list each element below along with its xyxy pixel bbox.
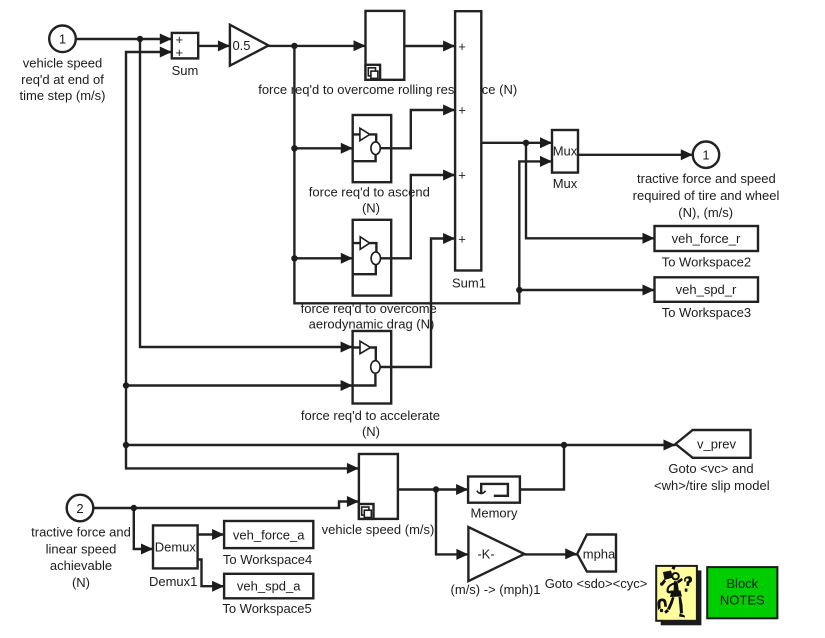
- svg-text:force req'd to accelerate: force req'd to accelerate: [301, 408, 440, 423]
- arrowhead Mux input2: [540, 156, 552, 167]
- svg-text:+: +: [458, 168, 466, 183]
- svg-text:1: 1: [702, 148, 709, 163]
- svg-text:1: 1: [59, 32, 66, 47]
- arrowhead veh_spd_r input: [643, 285, 655, 296]
- wire branch to veh_force_r: [526, 143, 655, 239]
- wire Sum1 output to Mux input1: [481, 142, 552, 144]
- svg-text:linear speed: linear speed: [46, 541, 117, 556]
- svg-text:+: +: [458, 232, 466, 247]
- wire Demux output1 to veh_force_a: [198, 533, 225, 535]
- svg-text:To Workspace3: To Workspace3: [662, 305, 751, 320]
- svg-text:Block: Block: [726, 576, 758, 591]
- arrowhead Demux input: [141, 544, 153, 555]
- svg-text:veh_spd_a: veh_spd_a: [237, 579, 301, 594]
- arrowhead Sum1 input4: [443, 233, 455, 244]
- sum block Sum1 (tall): [455, 11, 481, 270]
- wire ascend output to Sum1 input2: [392, 110, 455, 148]
- wire branch down to gain -K-: [436, 490, 468, 555]
- subsystem vehicle speed: [359, 454, 398, 519]
- junction at ascend branch: [291, 145, 297, 151]
- mux block Mux: [552, 130, 578, 173]
- svg-text:Memory: Memory: [471, 505, 518, 520]
- head outline: [671, 572, 680, 580]
- junction on inport1 wire: [137, 36, 143, 42]
- subsystem force req'd to overcome aerodynamic drag: [353, 220, 392, 296]
- sum block Sum: [172, 32, 198, 60]
- inport 2: [67, 495, 94, 522]
- left foot: [664, 609, 669, 614]
- arrowhead veh_force_a input: [212, 529, 224, 540]
- svg-text:Goto <vc> and: Goto <vc> and: [668, 461, 753, 476]
- wire accelerate output to Sum1 input4: [391, 239, 455, 368]
- gain 0.5: [230, 25, 269, 66]
- arrowhead drag input: [341, 253, 353, 264]
- svg-text:Demux: Demux: [155, 539, 197, 554]
- wire branch to Demux input: [134, 508, 153, 549]
- svg-text:tractive force and speed: tractive force and speed: [637, 171, 776, 186]
- junction at v_prev line branch: [123, 442, 129, 448]
- svg-text:Goto <sdo><cyc>: Goto <sdo><cyc>: [545, 576, 648, 591]
- arrowhead veh_spd_a input: [212, 581, 224, 592]
- bottom-left curl: [657, 598, 667, 610]
- wire branch down to accelerate input1: [140, 39, 353, 347]
- inport 1: [49, 26, 76, 53]
- arrowhead veh_force_r input: [643, 233, 655, 244]
- to workspace veh_force_a: [224, 521, 313, 548]
- wire Demux output2 to veh_spd_a: [198, 560, 225, 587]
- arrowhead Sum input1: [160, 34, 172, 45]
- subsystem force req'd to accelerate: [353, 331, 392, 404]
- svg-text:Sum1: Sum1: [452, 276, 486, 291]
- label of inport 1: [20, 56, 106, 103]
- label of outport 1: [633, 171, 780, 220]
- svg-text:veh_force_r: veh_force_r: [672, 231, 741, 246]
- svg-text:(m/s) -> (mph)1: (m/s) -> (mph)1: [451, 582, 541, 597]
- svg-text:vehicle speed (m/s): vehicle speed (m/s): [322, 522, 435, 537]
- junction on vehicle speed output: [433, 486, 439, 492]
- goto mpha: [577, 535, 616, 572]
- wire drag output to Sum1 input3: [392, 175, 455, 258]
- to workspace veh_spd_r: [655, 277, 759, 302]
- junction on inport2 wire: [131, 505, 137, 511]
- svg-text:+: +: [458, 39, 466, 54]
- right arm raised to head: [677, 578, 683, 584]
- wire feedback into Sum input2 and down to vehicle speed input1: [126, 52, 359, 468]
- wire gain -K- output to Goto mpha: [524, 553, 577, 555]
- arrowhead accelerate input1: [341, 342, 353, 353]
- svg-text:req'd at end of: req'd at end of: [21, 72, 104, 87]
- label of subsystem force req'd to ascend: [309, 184, 430, 215]
- svg-text:+: +: [176, 45, 184, 60]
- right foot: [679, 614, 685, 618]
- right leg: [679, 597, 684, 614]
- svg-text:achievable: achievable: [50, 558, 112, 573]
- svg-text:Sum: Sum: [172, 63, 199, 78]
- junction Memory output joins v_prev line: [561, 442, 567, 448]
- arrowhead gain -K- input: [456, 549, 468, 560]
- wire Memory output up to v_prev line: [520, 445, 564, 490]
- svg-text:Mux: Mux: [553, 176, 578, 191]
- svg-text:tractive force and: tractive force and: [31, 525, 131, 540]
- svg-text:v_prev: v_prev: [697, 437, 737, 452]
- wire branch to ascend input: [294, 147, 352, 149]
- memory block: [468, 477, 520, 503]
- goto v_prev: [676, 430, 751, 458]
- svg-text:2: 2: [76, 501, 83, 516]
- arrowhead Sum input2: [160, 47, 172, 58]
- svg-text:<wh>/tire slip model: <wh>/tire slip model: [654, 478, 770, 493]
- outport 1: [693, 142, 719, 168]
- svg-text:veh_force_a: veh_force_a: [233, 528, 305, 543]
- annotation block with jester figure (yellow): [656, 565, 701, 625]
- skirt: [670, 591, 682, 598]
- arrowhead accelerate input2: [341, 380, 353, 391]
- wire inport2 to vehicle speed input2: [94, 502, 359, 509]
- junction at accelerate input2 branch: [123, 382, 129, 388]
- junction on gain 0.5 output: [291, 43, 297, 49]
- svg-text:+: +: [458, 103, 466, 118]
- svg-text:time step (m/s): time step (m/s): [20, 88, 106, 103]
- svg-text:To Workspace4: To Workspace4: [223, 552, 312, 567]
- arrowhead Memory input: [456, 484, 468, 495]
- arrowhead Mux input1: [540, 137, 552, 148]
- svg-text:(N), (m/s): (N), (m/s): [678, 205, 733, 220]
- arrowhead Goto mpha input: [565, 548, 577, 559]
- svg-text:aerodynamic drag (N): aerodynamic drag (N): [309, 316, 435, 331]
- svg-text:mpha: mpha: [583, 546, 616, 561]
- arrowhead Goto v_prev input: [664, 440, 676, 451]
- arrowhead vehicle speed input2: [347, 496, 359, 507]
- subsystem force req'd to overcome rolling resistance: [366, 11, 405, 80]
- arrowhead outport1: [681, 149, 693, 160]
- svg-text:To Workspace5: To Workspace5: [222, 601, 311, 616]
- wire gain 0.5 output to rolling resistance: [269, 45, 366, 47]
- svg-text:To Workspace2: To Workspace2: [662, 254, 751, 269]
- gain -K-: [468, 527, 524, 581]
- label of subsystem force req'd to overcome aerodynamic drag: [301, 301, 437, 331]
- svg-text:NOTES: NOTES: [720, 593, 765, 608]
- junction on Sum1 output: [523, 140, 529, 146]
- svg-text:Mux: Mux: [553, 143, 578, 158]
- to workspace veh_force_r: [655, 226, 759, 251]
- svg-text:(N): (N): [362, 201, 380, 216]
- label of Goto v_prev: [654, 461, 770, 493]
- torso: [674, 581, 680, 593]
- arrowhead Sum1 input3: [443, 170, 455, 181]
- wire long to Goto v_prev: [126, 444, 676, 446]
- subsystem force req'd to ascend: [353, 115, 392, 182]
- svg-text:(N): (N): [72, 575, 90, 590]
- wire gain output distribution down, across, up to Mux input2: [294, 46, 552, 303]
- left leg: [667, 597, 675, 610]
- wire rolling resistance output to Sum1 input1: [404, 45, 455, 47]
- arrowhead Sum1 input1: [443, 41, 455, 52]
- svg-text:vehicle speed: vehicle speed: [23, 56, 103, 71]
- demux block Demux1: [153, 525, 198, 568]
- junction at veh_spd_r branch: [516, 287, 522, 293]
- hat blob: [663, 571, 673, 581]
- svg-text:-K-: -K-: [477, 547, 494, 562]
- to workspace veh_spd_a: [224, 574, 313, 599]
- svg-text:required of tire and wheel: required of tire and wheel: [633, 188, 780, 203]
- svg-text:veh_spd_r: veh_spd_r: [676, 282, 737, 297]
- label of subsystem force req'd to accelerate: [301, 408, 440, 439]
- wire Sum output to gain 0.5: [198, 45, 230, 47]
- left arm on hip: [666, 583, 675, 594]
- wire branch to veh_spd_r: [519, 289, 654, 291]
- arrowhead rolling resistance input: [354, 40, 366, 51]
- arrowhead gain 0.5 input: [218, 40, 230, 51]
- annotation block Block NOTES (green): [707, 567, 777, 618]
- question mark: [684, 576, 692, 586]
- svg-text:0.5: 0.5: [232, 38, 250, 53]
- junction at drag branch: [291, 255, 297, 261]
- wire branch to accelerate input2: [126, 384, 353, 386]
- wire vehicle speed output to Memory: [398, 488, 468, 490]
- wire inport1 to Sum input1: [76, 38, 172, 40]
- arrowhead vehicle speed input1: [347, 463, 359, 474]
- arrowhead ascend input: [341, 143, 353, 154]
- arrowhead Sum1 input2: [443, 105, 455, 116]
- svg-text:(N): (N): [362, 424, 380, 439]
- wire branch to drag input: [294, 257, 352, 259]
- hat tip: [672, 565, 676, 570]
- label of inport 2: [31, 525, 131, 590]
- svg-text:Demux1: Demux1: [149, 574, 197, 589]
- wire Mux output to outport1: [578, 154, 693, 156]
- hat bell: [662, 579, 667, 585]
